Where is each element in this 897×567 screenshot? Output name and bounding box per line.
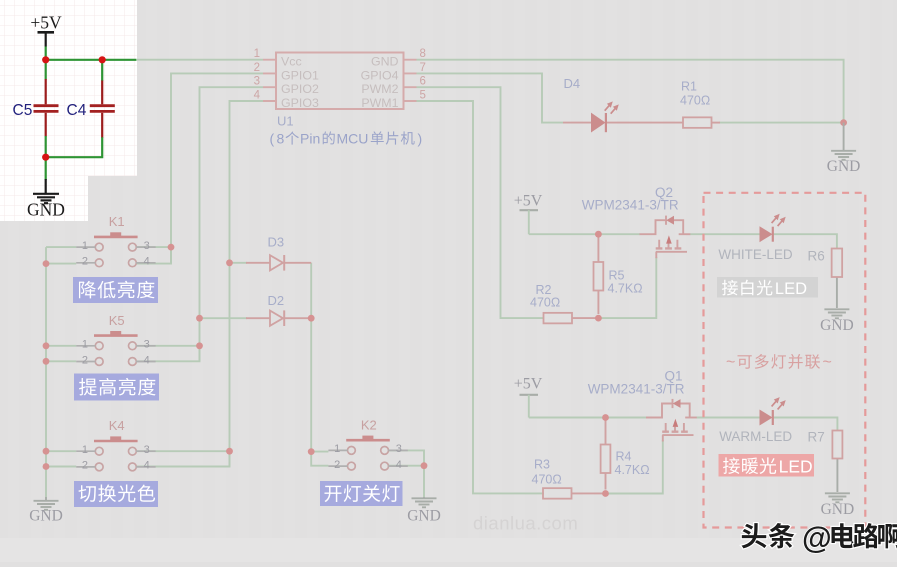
- ground symbol bright: [33, 194, 59, 203]
- svg-text:5: 5: [420, 89, 426, 101]
- wire K1 pins1-2 to bus: [46, 247, 76, 264]
- svg-text:GND: GND: [827, 158, 861, 175]
- ground symbol left bus: [45, 497, 47, 500]
- svg-text:GPIO2: GPIO2: [281, 82, 319, 96]
- svg-text:(: (: [270, 131, 275, 147]
- svg-text:K4: K4: [109, 418, 125, 433]
- svg-text:R3: R3: [534, 458, 550, 472]
- wire Q1 gate net to R4/R3 junction: [606, 440, 663, 494]
- resistor R1 470R body: [607, 122, 684, 124]
- node label box connect-warm-LED: [719, 454, 815, 477]
- svg-text:1: 1: [82, 339, 88, 351]
- diode D2: [200, 317, 248, 319]
- svg-text:D2: D2: [268, 293, 285, 308]
- svg-text:8: 8: [277, 131, 285, 147]
- wire +5V to Q2 drain: [529, 233, 640, 235]
- svg-text:R4: R4: [616, 450, 632, 464]
- svg-text:R1: R1: [681, 80, 697, 94]
- wire C5 top lead green: [45, 60, 47, 80]
- wire K5 pins1-2 to bus: [46, 346, 76, 362]
- diode D3: [230, 262, 248, 264]
- svg-text:GND: GND: [371, 55, 399, 69]
- wire C5 bottom green: [45, 136, 47, 157]
- svg-text:@: @: [802, 521, 832, 555]
- svg-text:K5: K5: [109, 313, 125, 328]
- svg-text:~: ~: [726, 354, 735, 371]
- svg-text:+5V: +5V: [514, 193, 543, 210]
- wire WARM-LED to R7: [773, 418, 838, 432]
- node label box reduce-brightness: [73, 277, 158, 303]
- switch K4 pushbutton: [95, 447, 136, 470]
- wire GND stem black: [45, 179, 47, 193]
- svg-text:R7: R7: [808, 430, 825, 445]
- svg-text:6: 6: [420, 76, 426, 88]
- svg-text:470Ω: 470Ω: [530, 296, 560, 310]
- svg-text:R6: R6: [808, 249, 825, 264]
- wire WHITE-LED to R6: [773, 234, 837, 249]
- node label box lamp-on-off: [320, 481, 403, 506]
- switch K5 pushbutton: [95, 342, 136, 366]
- svg-text:4: 4: [396, 459, 402, 471]
- wire K4 pins1-2 to bus: [46, 451, 76, 466]
- wire pin1 Vcc net: [136, 59, 263, 61]
- svg-text:2: 2: [254, 62, 260, 74]
- wire K2 pins1-2 to cathode bus: [311, 452, 328, 466]
- wire +5V stem green: [45, 47, 47, 60]
- svg-text:3: 3: [144, 339, 150, 351]
- wire pin8 GND net to top-right: [417, 60, 844, 123]
- wire +5V to Q1 drain: [529, 417, 646, 419]
- wire C4 bottom green to junction: [46, 137, 102, 180]
- svg-text:4: 4: [144, 256, 150, 268]
- svg-text:+5V: +5V: [30, 13, 62, 33]
- svg-text:1: 1: [82, 240, 88, 252]
- wire pin5 PWM1 net to R3: [417, 101, 545, 493]
- capacitor C5: [45, 79, 47, 104]
- svg-text:2: 2: [82, 256, 88, 268]
- wire left ground bus: [45, 247, 47, 497]
- svg-text:2: 2: [82, 354, 88, 366]
- svg-text:U1: U1: [277, 114, 294, 129]
- wire Q1 source to WARM-LED: [697, 417, 761, 419]
- switch K2 pushbutton: [348, 447, 389, 471]
- svg-text:3: 3: [144, 444, 150, 456]
- svg-text:LED: LED: [775, 280, 807, 298]
- transistor Q2 PMOS: [640, 216, 691, 259]
- svg-text:WPM2341-3/TR: WPM2341-3/TR: [588, 382, 685, 397]
- wire K5 pins3-4 to GPIO2 net: [136, 346, 200, 362]
- svg-text:GPIO4: GPIO4: [361, 68, 399, 82]
- LED WARM-LED: [760, 410, 772, 424]
- wire pin3 GPIO2 net vertical: [200, 87, 264, 361]
- switch K1 pushbutton: [95, 243, 136, 266]
- ground symbol top-right (R1 net): [843, 123, 845, 150]
- wire top horizontal net: [46, 59, 137, 61]
- svg-text:GND: GND: [821, 501, 855, 518]
- svg-text:C4: C4: [67, 102, 87, 119]
- U1 pin stubs left: [263, 60, 276, 101]
- svg-text:2: 2: [334, 459, 340, 471]
- wire R6 to GND: [836, 277, 838, 308]
- resistor R5 4.7K body: [597, 234, 599, 262]
- svg-text:1: 1: [254, 48, 260, 60]
- svg-text:470Ω: 470Ω: [680, 94, 710, 108]
- svg-text:4: 4: [254, 89, 261, 101]
- svg-text:D4: D4: [564, 76, 581, 91]
- svg-text:+5V: +5V: [514, 376, 543, 393]
- wire pin7 PWM2 net to D4: [417, 73, 564, 122]
- junction dots bright: [42, 56, 106, 161]
- ground symbol R7: [825, 493, 850, 502]
- svg-text:GPIO1: GPIO1: [281, 68, 319, 82]
- svg-text:C5: C5: [13, 102, 33, 119]
- wire K2 pins3-4 to ground: [388, 450, 424, 497]
- wire R7 to GND: [836, 459, 838, 493]
- wire pin6 GPIO4 net to R2: [417, 87, 545, 318]
- svg-text:Pin: Pin: [300, 131, 320, 147]
- logo toutiao at-dianlu-a: [742, 523, 767, 548]
- wire D3 D2 cathode bus to K2: [310, 263, 312, 452]
- svg-text:3: 3: [144, 240, 150, 252]
- svg-text:~: ~: [823, 354, 832, 371]
- svg-text:GPIO3: GPIO3: [281, 96, 319, 110]
- svg-text:4: 4: [144, 460, 150, 472]
- svg-text:K2: K2: [361, 417, 377, 432]
- LED D4: [563, 122, 592, 124]
- svg-text:): ): [418, 131, 423, 147]
- resistor R7 body: [832, 431, 842, 459]
- svg-text:LED: LED: [779, 457, 813, 477]
- wire pin4 GPIO3 net vertical: [230, 101, 264, 467]
- wire K4 pins3-4 to GPIO3 net: [136, 451, 230, 466]
- svg-text:2: 2: [82, 460, 88, 472]
- svg-text:1: 1: [82, 444, 88, 456]
- svg-text:WARM-LED: WARM-LED: [719, 429, 792, 444]
- svg-text:PWM1: PWM1: [361, 96, 398, 110]
- wire pin2 GPIO1 net vertical: [171, 73, 263, 263]
- svg-text:K1: K1: [109, 214, 125, 229]
- svg-text:4.7KΩ: 4.7KΩ: [608, 282, 643, 296]
- svg-text:R5: R5: [609, 269, 625, 283]
- white grid region: [0, 0, 137, 176]
- svg-text:WPM2341-3/TR: WPM2341-3/TR: [582, 198, 679, 213]
- U1 pin stubs right: [404, 60, 417, 101]
- resistor R3 470R body: [543, 488, 572, 499]
- wire R1 to GND junction: [719, 122, 844, 124]
- ground symbol R6: [824, 309, 849, 318]
- svg-text:3: 3: [254, 76, 260, 88]
- svg-text:dianlua.com: dianlua.com: [473, 513, 578, 534]
- ground symbol K2: [423, 496, 425, 499]
- svg-text:1: 1: [334, 443, 340, 455]
- resistor R2 470R body: [544, 313, 573, 324]
- svg-text:GND: GND: [407, 508, 441, 525]
- svg-text:GND: GND: [820, 317, 854, 334]
- wire C4 top lead green: [101, 60, 103, 81]
- wire K1 pins3-4 to GPIO1 net: [136, 247, 171, 264]
- dashed parallel-LED box: [704, 193, 866, 528]
- svg-text:8: 8: [420, 48, 426, 60]
- node label box connect-white-LED: [717, 277, 818, 298]
- node label box switch-color: [74, 481, 158, 507]
- resistor R6 body: [832, 249, 843, 278]
- svg-text:4.7KΩ: 4.7KΩ: [615, 463, 650, 477]
- transistor Q1 PMOS: [646, 399, 697, 442]
- LED WHITE-LED: [760, 227, 772, 241]
- wire Q2 gate net to R5/R2 junction: [598, 257, 656, 318]
- junction dots faded: [43, 119, 847, 497]
- svg-text:4: 4: [144, 354, 150, 366]
- svg-text:470Ω: 470Ω: [532, 473, 562, 487]
- svg-text:3: 3: [396, 443, 402, 455]
- wire Q2 source to WHITE-LED: [690, 233, 761, 235]
- svg-text:PWM2: PWM2: [361, 82, 398, 96]
- svg-text:7: 7: [420, 62, 426, 74]
- svg-text:MCU: MCU: [337, 131, 369, 147]
- svg-text:Vcc: Vcc: [281, 55, 302, 69]
- capacitor C4: [101, 81, 103, 105]
- op-amp U1 MCU body: [276, 53, 404, 110]
- svg-text:GND: GND: [27, 200, 65, 220]
- svg-text:WHITE-LED: WHITE-LED: [718, 247, 793, 262]
- resistor R4 4.7K body: [605, 418, 607, 445]
- svg-text:D3: D3: [268, 235, 285, 250]
- node label box increase-brightness: [74, 374, 159, 401]
- svg-text:GND: GND: [29, 508, 63, 525]
